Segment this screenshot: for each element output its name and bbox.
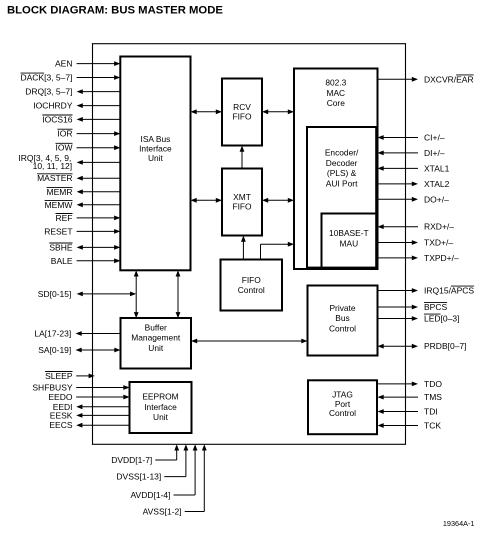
wire XMT FIFO to RCV FIFO <box>240 146 245 169</box>
svg-text:XTAL2: XTAL2 <box>424 179 450 189</box>
svg-text:19364A-1: 19364A-1 <box>443 519 475 528</box>
svg-text:XMT: XMT <box>233 192 251 202</box>
svg-text:TMS: TMS <box>424 392 442 402</box>
svg-text:DVDD[1-7]: DVDD[1-7] <box>111 455 152 465</box>
svg-text:(PLS) &: (PLS) & <box>327 168 357 178</box>
svg-text:FIFO: FIFO <box>232 202 252 212</box>
wire ISA-BMU bus 1 <box>134 270 139 318</box>
svg-text:MAC: MAC <box>326 88 345 98</box>
svg-text:CI+/–: CI+/– <box>424 133 445 143</box>
wire EEDI <box>53 402 130 412</box>
block U5 802.3 MAC Core <box>294 69 378 270</box>
wire MEMW <box>45 200 121 210</box>
svg-text:DXCVR/EAR: DXCVR/EAR <box>424 74 474 84</box>
svg-text:SBHE: SBHE <box>49 242 72 252</box>
wire AEN <box>55 59 120 69</box>
svg-text:IOCS16: IOCS16 <box>42 114 73 124</box>
wire IRQ15/APCS <box>378 286 475 296</box>
wire SHFBUSY <box>32 383 129 393</box>
wire MASTER <box>37 173 120 183</box>
svg-text:EEPROM: EEPROM <box>142 392 178 402</box>
wire TCK <box>378 421 442 431</box>
svg-text:Encoder/: Encoder/ <box>325 148 359 158</box>
power pin DVDD[1-7] <box>111 444 179 465</box>
power pin AVDD[1-4] <box>131 444 198 500</box>
svg-text:SHFBUSY: SHFBUSY <box>32 383 72 393</box>
svg-text:EESK: EESK <box>50 410 73 420</box>
wire MEMR <box>47 187 121 197</box>
svg-text:AVSS[1-2]: AVSS[1-2] <box>143 507 182 517</box>
wire LED[0-3] <box>378 314 460 324</box>
svg-text:DACK[3, 5–7]: DACK[3, 5–7] <box>21 73 73 83</box>
wire BALE <box>51 256 121 266</box>
svg-text:PRDB[0–7]: PRDB[0–7] <box>424 341 467 351</box>
block U6 Encoder/Decoder (PLS) &amp; AUI Port <box>307 127 376 268</box>
wire RESET <box>44 226 120 236</box>
wire XTAL1 <box>378 163 450 173</box>
svg-text:IRQ15/APCS: IRQ15/APCS <box>424 286 474 296</box>
svg-text:BPCS: BPCS <box>424 302 447 312</box>
svg-text:XTAL1: XTAL1 <box>424 163 450 173</box>
wire RCV FIFO-MAC bus <box>262 109 294 114</box>
svg-text:MEMR: MEMR <box>47 187 73 197</box>
svg-text:Control: Control <box>329 408 356 418</box>
wire IOCS16 <box>42 114 120 124</box>
wire EESK <box>50 410 130 420</box>
svg-text:Unit: Unit <box>153 412 169 422</box>
wire SD[0-15] <box>38 289 136 299</box>
svg-text:RXD+/–: RXD+/– <box>424 222 454 232</box>
svg-text:DRQ[3, 5–7]: DRQ[3, 5–7] <box>25 87 72 97</box>
svg-text:Core: Core <box>327 98 345 108</box>
svg-text:Control: Control <box>238 285 265 295</box>
svg-text:BLOCK DIAGRAM: BUS MASTER MODE: BLOCK DIAGRAM: BUS MASTER MODE <box>7 4 223 16</box>
wire TXD+/- <box>378 238 454 248</box>
wire TXPD+/- <box>378 253 459 263</box>
svg-text:EECS: EECS <box>49 420 72 430</box>
svg-text:Unit: Unit <box>148 343 164 353</box>
block U2 RCV FIFO <box>222 79 262 146</box>
wire EEDO <box>48 392 129 402</box>
power pin AVSS[1-2] <box>143 444 207 516</box>
svg-text:10BASE-T: 10BASE-T <box>329 228 369 238</box>
svg-text:SD[0-15]: SD[0-15] <box>38 289 72 299</box>
svg-text:Decoder: Decoder <box>326 158 358 168</box>
wire LA[17-23] <box>34 329 120 339</box>
svg-text:TXPD+/–: TXPD+/– <box>424 253 459 263</box>
svg-text:802.3: 802.3 <box>325 78 346 88</box>
svg-text:RESET: RESET <box>44 226 72 236</box>
wire SA[0-19] <box>38 345 120 355</box>
svg-text:EEDO: EEDO <box>48 392 72 402</box>
wire XTAL2 <box>378 179 450 189</box>
wire ISA-RCV FIFO bus <box>191 109 223 114</box>
wire IRQ[3,4,5,9,10,11,12] <box>18 153 120 171</box>
svg-text:MEMW: MEMW <box>45 200 73 210</box>
block U10 Buffer Management Unit <box>121 318 192 369</box>
svg-text:TDI: TDI <box>424 407 438 417</box>
svg-text:DVSS[1-13]: DVSS[1-13] <box>116 472 161 482</box>
block U8 Private Bus Control <box>308 286 378 356</box>
wire EECS <box>49 420 129 430</box>
svg-text:LED[0–3]: LED[0–3] <box>424 314 459 324</box>
chassis: chip boundary <box>93 44 406 445</box>
svg-text:IOCHRDY: IOCHRDY <box>33 101 73 111</box>
svg-text:RCV: RCV <box>233 102 251 112</box>
wire ISA-BMU bus 2 <box>176 270 181 318</box>
block U3 XMT FIFO <box>222 169 262 236</box>
svg-text:MASTER: MASTER <box>37 173 72 183</box>
svg-text:Bus: Bus <box>335 313 349 323</box>
svg-text:DO+/–: DO+/– <box>424 194 449 204</box>
svg-text:Interface: Interface <box>144 402 177 412</box>
svg-text:IOR: IOR <box>57 129 72 139</box>
svg-text:AEN: AEN <box>55 59 72 69</box>
power pin DVSS[1-13] <box>116 444 188 481</box>
wire DXCVR/EAR <box>378 74 474 84</box>
wire BPCS <box>378 302 448 312</box>
svg-text:SLEEP: SLEEP <box>45 371 73 381</box>
svg-text:TDO: TDO <box>424 379 442 389</box>
wire FIFO Control to MAC Core <box>261 242 295 260</box>
svg-text:DI+/–: DI+/– <box>424 148 445 158</box>
svg-text:Management: Management <box>131 333 181 343</box>
wire RXD+/- <box>378 222 455 232</box>
wire IOW <box>56 143 121 153</box>
svg-text:TCK: TCK <box>424 421 441 431</box>
block U9 JTAG Port Control <box>308 380 377 434</box>
wire TDI <box>378 407 438 417</box>
block U11 EEPROM Interface Unit <box>130 382 192 433</box>
svg-text:10, 11, 12]: 10, 11, 12] <box>33 161 73 171</box>
wire DACK <box>21 73 121 83</box>
wire REF <box>56 213 121 223</box>
svg-text:LA[17-23]: LA[17-23] <box>34 329 71 339</box>
wire SLEEP <box>45 371 95 381</box>
svg-text:REF: REF <box>56 213 73 223</box>
wire IOCHRDY <box>33 101 120 111</box>
wire DO+/- <box>378 194 450 204</box>
wire DI+/- <box>378 148 445 158</box>
block U1 ISA Bus Interface Unit <box>120 57 190 271</box>
svg-text:SA[0-19]: SA[0-19] <box>38 345 71 355</box>
svg-text:Private: Private <box>329 303 355 313</box>
wire FIFO Control to XMT FIFO <box>241 236 246 260</box>
wire DRQ <box>25 87 120 97</box>
svg-text:FIFO: FIFO <box>232 112 252 122</box>
svg-text:Control: Control <box>329 323 356 333</box>
block U7 10BASE-T MAU <box>322 214 377 268</box>
wire CI+/- <box>378 133 445 143</box>
wire TDO <box>378 379 443 389</box>
wire XMT FIFO-MAC bus <box>262 198 294 203</box>
wire ISA-XMT FIFO bus <box>191 198 223 203</box>
wire BMU-Private Bus Control <box>191 339 308 344</box>
wire IOR <box>57 129 120 139</box>
svg-text:AUI Port: AUI Port <box>326 178 358 188</box>
wire TMS <box>378 392 443 402</box>
svg-text:AVDD[1-4]: AVDD[1-4] <box>131 490 171 500</box>
svg-text:FIFO: FIFO <box>242 275 262 285</box>
wire PRDB[0-7] <box>378 341 467 351</box>
svg-text:Buffer: Buffer <box>145 322 167 332</box>
block U4 FIFO Control <box>221 260 283 311</box>
svg-text:MAU: MAU <box>340 238 359 248</box>
wire SBHE <box>49 242 120 252</box>
svg-text:Unit: Unit <box>148 153 164 163</box>
svg-text:TXD+/–: TXD+/– <box>424 238 453 248</box>
svg-text:IOW: IOW <box>56 143 73 153</box>
svg-text:BALE: BALE <box>51 256 73 266</box>
